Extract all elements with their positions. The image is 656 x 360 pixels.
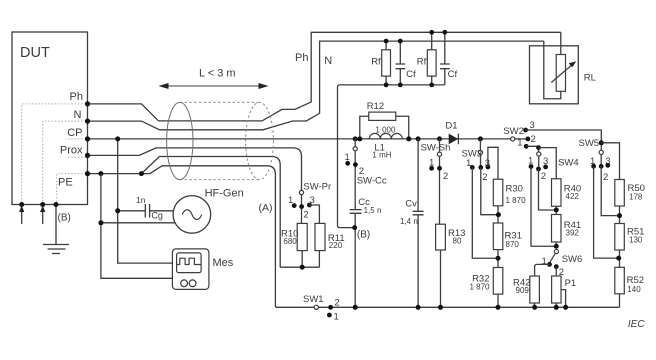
svg-text:2: 2 <box>334 298 339 309</box>
svg-text:Cv: Cv <box>405 199 417 210</box>
svg-text:1: 1 <box>517 138 522 149</box>
svg-text:870: 870 <box>506 240 520 249</box>
svg-text:D1: D1 <box>445 120 457 131</box>
svg-text:IEC: IEC <box>628 319 645 330</box>
svg-text:422: 422 <box>566 192 580 201</box>
svg-text:2: 2 <box>482 172 487 183</box>
svg-text:(B): (B) <box>58 213 71 224</box>
svg-text:N: N <box>74 109 82 121</box>
svg-text:2: 2 <box>303 210 308 221</box>
svg-text:2: 2 <box>603 172 608 183</box>
svg-text:Mes: Mes <box>213 257 234 269</box>
svg-text:220: 220 <box>329 241 343 250</box>
svg-text:N: N <box>324 55 332 67</box>
svg-text:SW-Sh: SW-Sh <box>421 143 451 154</box>
svg-text:(A): (A) <box>259 202 273 214</box>
svg-text:SW-Cc: SW-Cc <box>357 175 387 186</box>
svg-text:R12: R12 <box>367 101 384 112</box>
svg-text:HF-Gen: HF-Gen <box>205 188 244 200</box>
svg-text:Cf: Cf <box>448 69 458 80</box>
svg-text:1: 1 <box>542 256 547 267</box>
svg-text:Cf: Cf <box>406 69 416 80</box>
svg-text:80: 80 <box>453 236 462 245</box>
svg-text:140: 140 <box>627 285 641 294</box>
svg-text:Ph: Ph <box>70 91 83 103</box>
svg-text:130: 130 <box>629 236 643 245</box>
svg-text:CP: CP <box>67 127 82 139</box>
svg-text:DUT: DUT <box>20 45 50 61</box>
svg-text:680: 680 <box>283 237 297 246</box>
svg-text:1,5 n: 1,5 n <box>364 206 382 215</box>
svg-text:L < 3 m: L < 3 m <box>199 68 236 80</box>
svg-text:R30: R30 <box>506 183 523 194</box>
svg-text:SW5: SW5 <box>579 138 600 149</box>
svg-text:SW3: SW3 <box>462 148 483 159</box>
svg-text:PE: PE <box>58 177 73 189</box>
svg-text:1 870: 1 870 <box>506 196 527 205</box>
svg-text:(B): (B) <box>357 230 370 241</box>
svg-text:2: 2 <box>443 171 448 182</box>
svg-text:1,4 n: 1,4 n <box>400 217 418 226</box>
svg-text:SW6: SW6 <box>562 254 583 265</box>
svg-text:909: 909 <box>516 286 530 295</box>
svg-text:Ph: Ph <box>295 52 308 64</box>
svg-text:Cg: Cg <box>151 211 163 221</box>
svg-text:Prox: Prox <box>60 145 83 157</box>
svg-text:1: 1 <box>334 312 339 323</box>
svg-text:2: 2 <box>541 171 546 182</box>
svg-text:2: 2 <box>531 134 536 145</box>
svg-text:1 870: 1 870 <box>469 283 490 292</box>
svg-text:P1: P1 <box>565 278 577 289</box>
svg-text:SW2: SW2 <box>503 126 524 137</box>
svg-text:Rf: Rf <box>417 57 427 68</box>
svg-text:392: 392 <box>566 229 580 238</box>
svg-text:1 mH: 1 mH <box>372 151 391 160</box>
svg-text:RL: RL <box>584 73 596 84</box>
svg-text:Rf: Rf <box>371 57 381 68</box>
svg-text:1n: 1n <box>136 195 146 205</box>
svg-text:SW1: SW1 <box>303 294 324 305</box>
svg-text:178: 178 <box>629 193 643 202</box>
svg-text:SW4: SW4 <box>558 158 579 169</box>
svg-text:SW-Pr: SW-Pr <box>303 182 331 193</box>
